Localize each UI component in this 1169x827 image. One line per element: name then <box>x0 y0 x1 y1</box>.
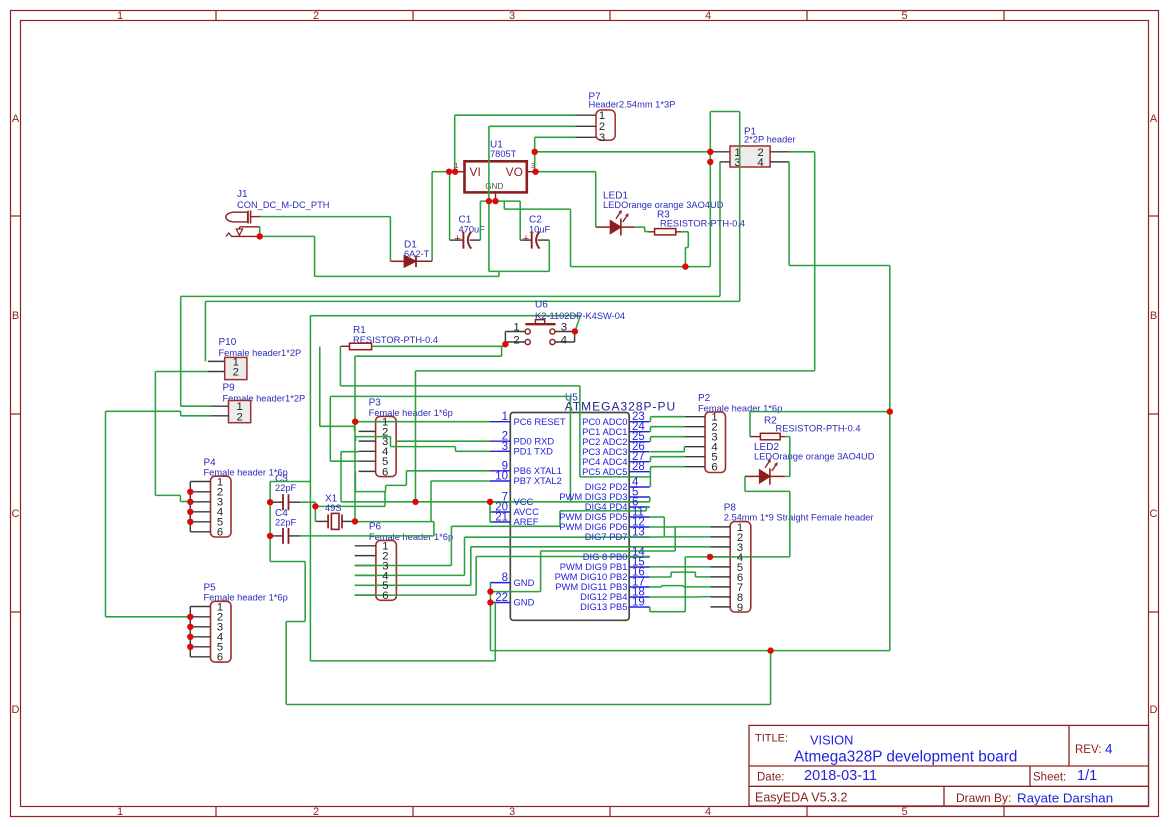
svg-text:RESISTOR-PTH-0.4: RESISTOR-PTH-0.4 <box>776 424 861 434</box>
wire P3 pin4 to VCC rail <box>341 452 359 502</box>
svg-text:ATMEGA328P-PU: ATMEGA328P-PU <box>565 399 676 413</box>
svg-text:6: 6 <box>217 652 223 664</box>
svg-text:3: 3 <box>509 10 515 22</box>
wire U5 pin2 stub rail <box>396 440 490 442</box>
wire P1 left column <box>709 112 711 267</box>
header P4 Female header 1*6p <box>190 457 287 537</box>
svg-text:6: 6 <box>382 590 388 602</box>
wire P3 pin3 to U5 pin3 <box>356 437 490 452</box>
wire U1 GND row <box>480 200 520 202</box>
header P8 2.54mm 1*9 Straight Female header <box>711 502 874 612</box>
connector J1 CON_DC_M-DC_PTH <box>226 189 330 236</box>
svg-text:Header2.54mm 1*3P: Header2.54mm 1*3P <box>589 99 676 109</box>
svg-text:49S: 49S <box>325 503 342 513</box>
LED LED2 LEDOrange orange 3AO4UD <box>745 442 875 485</box>
svg-text:10: 10 <box>495 471 508 483</box>
wire U5 power bracket <box>490 502 493 522</box>
header P7 Header2.54mm 1*3P <box>575 91 675 144</box>
svg-text:U6: U6 <box>535 299 548 310</box>
wire P10 pin2 down to P4 <box>155 372 207 502</box>
wire bottom gnd rail <box>286 651 770 705</box>
svg-text:VO: VO <box>506 165 523 179</box>
P6 pin numbers <box>382 541 388 602</box>
svg-text:+: + <box>454 233 460 245</box>
svg-text:PC6 RESET: PC6 RESET <box>514 416 566 427</box>
wire C1 right up to GND row <box>479 201 481 240</box>
wires U5 ADC pins to P2 <box>651 417 686 472</box>
svg-text:LEDOrange orange 3AO4UD: LEDOrange orange 3AO4UD <box>603 200 724 210</box>
wire C1 left up to VI <box>449 172 451 240</box>
svg-text:1/1: 1/1 <box>1077 768 1097 784</box>
wire rail to P9 pin1 <box>181 296 720 406</box>
wire P6 pin6 to U5 pin14 row <box>355 557 650 596</box>
svg-text:2*2P header: 2*2P header <box>744 134 796 144</box>
svg-text:22pF: 22pF <box>275 483 297 493</box>
wire U5 pin15 to P8 pin5 <box>650 566 711 568</box>
svg-text:Female header1*2P: Female header1*2P <box>219 348 302 358</box>
svg-text:3: 3 <box>561 322 567 334</box>
svg-text:3: 3 <box>502 441 508 453</box>
wire R1 left down <box>339 346 341 386</box>
wire U5 pin22 to rail <box>310 603 495 661</box>
wire R3 right down to GND run <box>681 232 688 267</box>
svg-text:PD1 TXD: PD1 TXD <box>514 446 554 457</box>
svg-text:6: 6 <box>382 466 388 478</box>
svg-text:J1: J1 <box>237 189 248 200</box>
svg-text:DIG13 PB5: DIG13 PB5 <box>580 601 627 612</box>
svg-text:3: 3 <box>509 806 515 818</box>
svg-text:Rayate Darshan: Rayate Darshan <box>1017 791 1113 806</box>
wire R2 to LED2 cathode <box>785 437 790 477</box>
P2 pin numbers <box>711 412 717 474</box>
wire gnd rail mid <box>490 650 889 652</box>
svg-text:AREF: AREF <box>514 516 539 527</box>
wire P6 pin4 row to P8 <box>355 537 650 575</box>
wire C2 right down <box>548 240 550 271</box>
P3 pin numbers <box>382 417 388 479</box>
wire LED1 cathode jog to R3 <box>635 227 649 232</box>
wire U5 pin11 to P8 pin2 <box>650 517 711 537</box>
wire VO to LED1 anode <box>536 172 596 227</box>
capacitor C2 10uF <box>520 215 550 249</box>
svg-text:VI: VI <box>470 165 481 179</box>
wire P1 pin4 to R2 rail <box>789 162 890 412</box>
wire P7 pin3 down to VO rail <box>535 137 576 152</box>
svg-text:REV:: REV: <box>1075 744 1101 756</box>
svg-text:C: C <box>1150 508 1158 520</box>
voltage regulator U1 7805T <box>454 139 535 201</box>
svg-text:2: 2 <box>313 806 319 818</box>
svg-text:9: 9 <box>737 602 743 614</box>
wire U5 pin18 to P8 pin8 <box>650 596 711 598</box>
crystal X1 49S <box>315 513 355 529</box>
diode D1 6A2-T <box>390 239 432 267</box>
wire U5 pin17 to P8 pin7 <box>650 586 711 587</box>
svg-text:RESISTOR-PTH-0.4: RESISTOR-PTH-0.4 <box>660 219 745 229</box>
wire GND right column <box>889 412 891 651</box>
wire GND lateral C2 <box>489 201 549 271</box>
header P1 2*2P header <box>710 126 795 169</box>
wire U5 pin10 to X1 right <box>355 481 490 522</box>
wire D1 cathode up to U1 VI <box>432 172 456 262</box>
svg-text:6: 6 <box>711 462 717 474</box>
P4 pin numbers <box>217 476 223 538</box>
wire P9 pin2 to P5 <box>106 411 211 617</box>
svg-text:B: B <box>12 310 19 322</box>
svg-text:C: C <box>12 508 20 520</box>
wire X1 left link <box>300 492 385 522</box>
svg-text:21: 21 <box>495 512 508 524</box>
svg-text:EasyEDA V5.3.2: EasyEDA V5.3.2 <box>755 791 847 805</box>
svg-text:1: 1 <box>502 411 508 423</box>
U6 pin numbers <box>513 322 567 347</box>
wire P1 top bracket <box>710 112 739 302</box>
wire U5 pin13 row <box>650 536 665 538</box>
svg-text:PB7 XTAL2: PB7 XTAL2 <box>514 475 562 486</box>
svg-text:2: 2 <box>233 367 239 379</box>
svg-text:2: 2 <box>236 411 242 423</box>
wire J1 tip to D1 anode <box>260 217 391 262</box>
P5 pin numbers <box>217 601 223 663</box>
svg-text:8: 8 <box>502 572 508 584</box>
svg-text:4: 4 <box>757 157 763 169</box>
svg-text:Date:: Date: <box>757 772 785 784</box>
svg-text:1: 1 <box>117 806 123 818</box>
header P6 Female header 1*6p <box>355 522 453 601</box>
resistor R3 RESISTOR-PTH-0.4 <box>648 210 745 235</box>
wire P6 pin3 staircase <box>355 507 650 566</box>
U5 pin names and numbers <box>495 411 645 612</box>
svg-text:+: + <box>523 233 529 245</box>
wire P7 pin1 to VI junction <box>455 115 576 172</box>
capacitor C3 22pF <box>270 473 300 510</box>
svg-text:DIG7 PD7: DIG7 PD7 <box>585 531 628 542</box>
svg-text:VISION: VISION <box>810 733 853 748</box>
wire P3 pin5 rail to VCC col <box>330 396 570 501</box>
svg-text:5: 5 <box>901 10 907 22</box>
wire C2 left up to GND row <box>519 201 521 240</box>
header P3 Female header 1*6p <box>359 398 453 477</box>
wire P8 pin4 net west <box>650 557 710 612</box>
svg-text:4: 4 <box>1105 742 1113 757</box>
svg-text:19: 19 <box>632 597 645 609</box>
svg-text:P10: P10 <box>219 337 237 348</box>
wire U5 pin16 to P8 pin6 <box>650 572 711 577</box>
wire P3 pin2 west <box>320 347 355 432</box>
svg-text:4: 4 <box>705 806 711 818</box>
svg-text:4: 4 <box>561 334 567 346</box>
wire C4 right to XTAL2 rail <box>300 522 434 536</box>
svg-text:K2-1102DP-K4SW-04: K2-1102DP-K4SW-04 <box>535 311 625 321</box>
svg-text:22pF: 22pF <box>275 518 297 528</box>
svg-text:D: D <box>1150 704 1158 716</box>
svg-text:2: 2 <box>313 10 319 22</box>
svg-text:TITLE:: TITLE: <box>755 733 788 745</box>
U6 labels <box>535 299 625 321</box>
svg-text:CON_DC_M-DC_PTH: CON_DC_M-DC_PTH <box>237 200 329 210</box>
svg-text:A: A <box>12 113 20 125</box>
capacitor C1 470uF <box>450 215 486 249</box>
capacitor C4 22pF <box>270 508 300 544</box>
svg-text:A: A <box>1150 113 1158 125</box>
svg-text:Drawn By:: Drawn By: <box>956 791 1011 805</box>
svg-text:PC5 ADC5: PC5 ADC5 <box>582 466 627 477</box>
wire U6 diagonal to rail <box>575 316 581 332</box>
title block <box>749 725 1149 806</box>
wire rail P1 to P10 pin1 <box>205 301 739 361</box>
wire U5 pin9 staircase to P3 pin6 <box>355 471 490 492</box>
wire rail y386 to U5 pin28 <box>340 386 650 487</box>
svg-text:D: D <box>12 704 20 716</box>
wire rail y316 <box>310 316 580 661</box>
svg-text:P9: P9 <box>223 383 236 394</box>
wire C3 C4 left gnd column <box>270 482 310 705</box>
svg-text:Sheet:: Sheet: <box>1033 772 1066 784</box>
svg-text:1: 1 <box>117 10 123 22</box>
pushbutton U6 K2-1102DP-K4SW-04 <box>505 320 574 345</box>
microcontroller U5 ATMEGA328P-PU <box>490 392 676 620</box>
svg-text:2: 2 <box>513 334 519 346</box>
svg-text:6: 6 <box>217 527 223 539</box>
wire R1 right to U6 <box>355 342 506 356</box>
svg-text:13: 13 <box>632 527 645 539</box>
wire U5 gnd pins <box>490 551 675 651</box>
svg-text:7805T: 7805T <box>490 149 517 159</box>
svg-text:GND: GND <box>485 182 503 191</box>
wire reset net P3 pin1 to U5 pin1 <box>355 421 490 423</box>
svg-text:GND: GND <box>514 577 535 588</box>
wire VCC rail <box>341 497 650 502</box>
header P9 Female header1*2P <box>211 383 306 424</box>
wire P1 pin3 down <box>719 162 721 297</box>
wire X1 vertical <box>354 356 356 521</box>
header P2 Female header 1*6p <box>685 393 782 472</box>
wire R2 top rail <box>750 412 890 437</box>
X1 labels <box>325 494 342 514</box>
svg-text:LEDOrange orange 3AO4UD: LEDOrange orange 3AO4UD <box>754 452 875 462</box>
svg-text:1: 1 <box>513 322 519 334</box>
resistor R2 RESISTOR-PTH-0.4 <box>750 416 861 440</box>
svg-text:5: 5 <box>901 806 907 818</box>
resistor R1 RESISTOR-PTH-0.4 <box>340 325 438 350</box>
header P5 Female header 1*6p <box>190 583 287 663</box>
wire P7 pin2 down to GND row <box>489 126 576 201</box>
P8 pin numbers <box>737 522 743 614</box>
svg-text:2018-03-11: 2018-03-11 <box>804 768 877 784</box>
svg-text:B: B <box>1150 310 1157 322</box>
wire VO rail to P1 pin1 <box>535 152 711 172</box>
wire GND run to P1 column <box>571 266 711 268</box>
header P10 Female header1*2P <box>208 337 301 379</box>
LED LED1 LEDOrange orange 3AO4UD <box>596 190 724 235</box>
svg-text:Atmega328P development board: Atmega328P development board <box>794 749 1017 766</box>
wire J1 sleeve ground run <box>260 236 499 276</box>
wire LED2 anode to P8 pin4 row <box>710 476 790 557</box>
svg-text:28: 28 <box>632 461 645 473</box>
svg-text:GND: GND <box>514 597 535 608</box>
svg-text:22: 22 <box>495 592 508 604</box>
wire GND row jog east <box>504 201 570 267</box>
wire U5 pin12 to P8 pin1 <box>650 527 711 551</box>
wire P6 pin5 to P8 pin3 <box>355 547 711 586</box>
wire P1 pin2 rail <box>416 152 815 502</box>
svg-text:3: 3 <box>599 132 605 144</box>
svg-text:4: 4 <box>705 10 711 22</box>
